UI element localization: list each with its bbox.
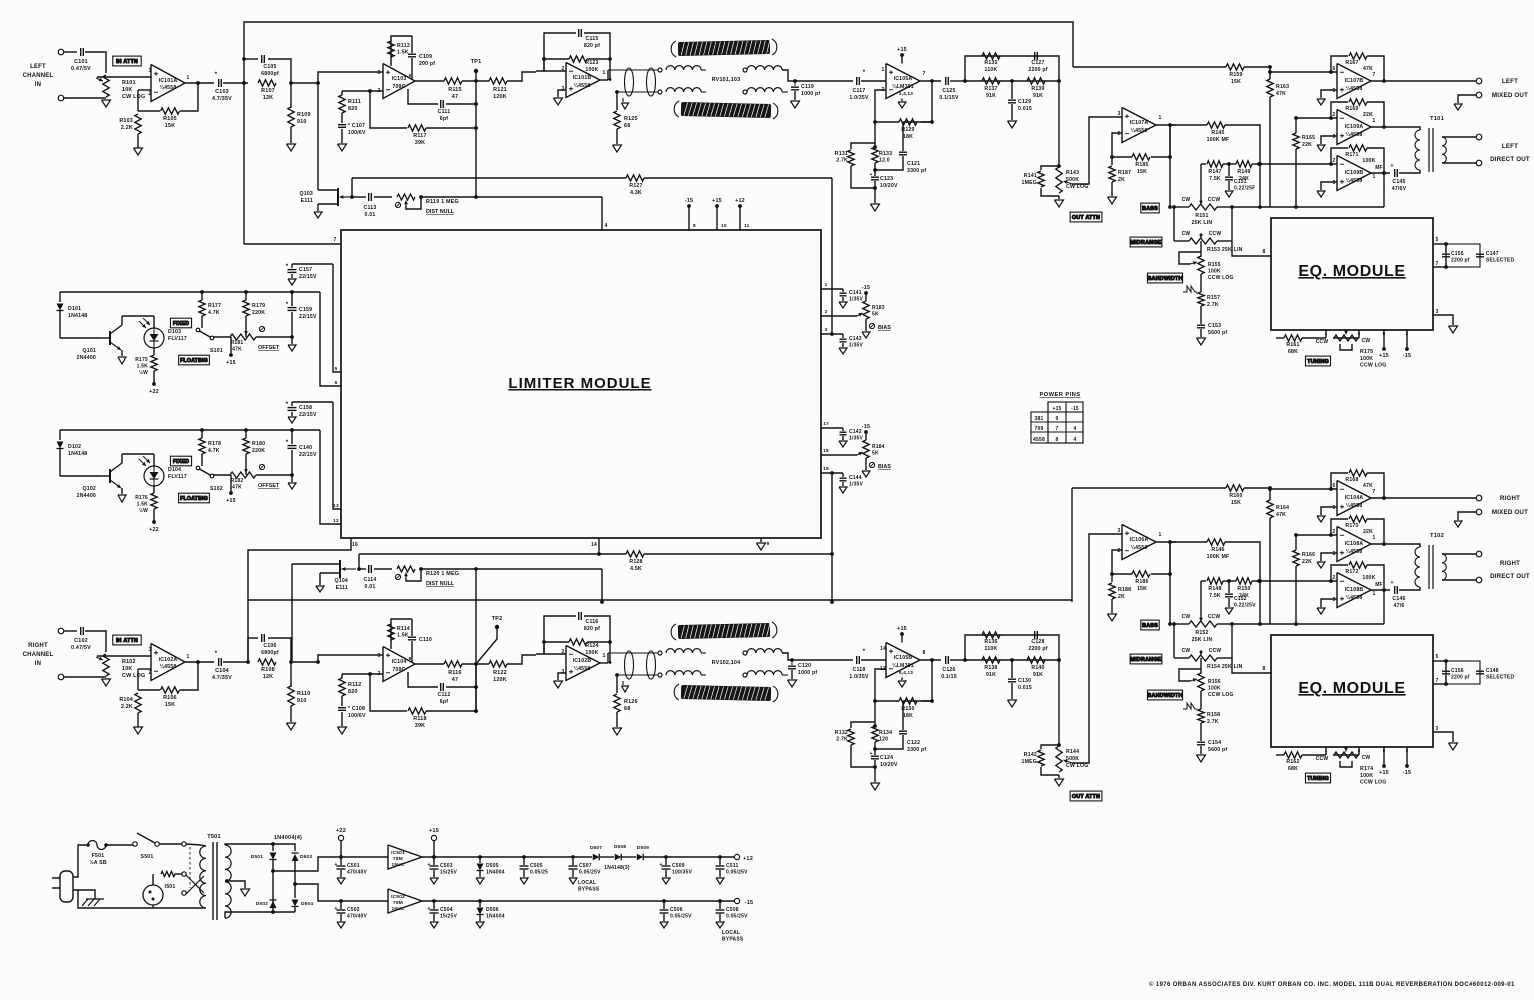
svg-text:7: 7 xyxy=(1436,678,1439,684)
svg-text:½W: ½W xyxy=(139,507,148,514)
sawtooth symbol xyxy=(1183,286,1197,292)
resistor R185 15K feedback xyxy=(1112,133,1122,157)
resistor R114 1.5K compensation xyxy=(391,619,412,648)
svg-text:S501: S501 xyxy=(141,854,154,860)
limiter top power pins xyxy=(687,204,691,208)
label TUNING xyxy=(1305,356,1330,366)
svg-text:1N4148: 1N4148 xyxy=(68,313,87,319)
svg-text:FIXED: FIXED xyxy=(173,321,189,327)
svg-text:½W: ½W xyxy=(139,369,148,376)
svg-text:7: 7 xyxy=(1373,489,1376,495)
svg-text:R172: R172 xyxy=(1345,569,1358,575)
svg-text:22K: 22K xyxy=(1302,559,1312,565)
svg-text:2: 2 xyxy=(1406,748,1409,753)
svg-text:120K: 120K xyxy=(493,677,507,683)
resistor R180 220K xyxy=(244,428,248,432)
test point TP2 xyxy=(495,625,499,629)
Left channel input label xyxy=(23,64,54,88)
svg-text:IC102A: IC102A xyxy=(159,657,178,663)
ground xyxy=(569,878,577,884)
svg-text:¼4558: ¼4558 xyxy=(1131,127,1148,134)
svg-text:12K: 12K xyxy=(263,674,274,680)
svg-text:10: 10 xyxy=(721,223,727,229)
limiter pin wire 19 xyxy=(821,472,843,474)
resistor R139 91K xyxy=(1027,78,1045,84)
svg-text:D103: D103 xyxy=(168,329,181,335)
svg-text:8: 8 xyxy=(409,73,412,78)
svg-text:17: 17 xyxy=(823,421,829,427)
svg-text:1.5K: 1.5K xyxy=(397,50,409,56)
svg-text:*: * xyxy=(215,651,218,657)
svg-text:2: 2 xyxy=(1333,575,1336,581)
svg-text:R178: R178 xyxy=(208,441,221,447)
capacitor C111 6pf feedback xyxy=(408,89,438,104)
resistor R117 39K feedback xyxy=(370,91,407,128)
svg-text:6: 6 xyxy=(1333,483,1336,489)
svg-text:R149: R149 xyxy=(1237,169,1250,175)
resistor R108 12K xyxy=(258,659,276,665)
svg-text:C502: C502 xyxy=(347,907,360,913)
resistor R164 47K xyxy=(1267,500,1273,518)
main bus wire xyxy=(60,291,320,293)
capacitor C103 4.7/35V xyxy=(218,79,220,87)
svg-text:3: 3 xyxy=(149,647,152,653)
svg-text:FLV117: FLV117 xyxy=(168,336,187,342)
svg-text:¼4558: ¼4558 xyxy=(1346,177,1363,184)
resistor R140 91K xyxy=(1027,657,1045,663)
svg-text:3: 3 xyxy=(149,68,152,74)
wire to 709 stage xyxy=(291,82,318,84)
resistor R131 2.7K xyxy=(851,143,875,149)
capacitor C146 xyxy=(1371,589,1390,591)
svg-text:-15: -15 xyxy=(685,198,693,204)
svg-text:14: 14 xyxy=(880,646,886,652)
svg-text:F501: F501 xyxy=(92,853,105,859)
svg-text:C116: C116 xyxy=(586,619,599,625)
wire xyxy=(64,51,77,53)
svg-text:47: 47 xyxy=(452,677,458,683)
svg-text:C143: C143 xyxy=(849,336,862,342)
svg-text:C129: C129 xyxy=(1018,99,1031,105)
AC plug xyxy=(52,878,60,888)
svg-text:78M: 78M xyxy=(393,856,403,862)
svg-text:C140: C140 xyxy=(299,445,312,451)
wire LM381 output xyxy=(920,80,941,82)
resistor R166 22K xyxy=(1295,535,1297,550)
svg-text:DIST NULL: DIST NULL xyxy=(426,209,455,215)
resistor R162 68K tuning xyxy=(1276,754,1284,756)
svg-text:EQ. MODULE: EQ. MODULE xyxy=(1298,263,1405,280)
wire TP column down xyxy=(475,569,477,711)
svg-text:R102: R102 xyxy=(122,659,136,665)
wire lower rail xyxy=(78,890,201,908)
capacitor C152 xyxy=(1228,581,1230,593)
svg-text:C505: C505 xyxy=(530,863,543,869)
svg-text:6: 6 xyxy=(335,380,338,386)
svg-text:CW: CW xyxy=(1182,231,1191,237)
svg-text:BYPASS: BYPASS xyxy=(722,936,744,942)
capacitor C157 22/15V xyxy=(292,263,333,265)
svg-text:47K: 47K xyxy=(232,484,242,490)
svg-text:8: 8 xyxy=(1263,666,1266,672)
capacitor C125 0.1/15V xyxy=(945,77,947,85)
svg-text:¼4558: ¼4558 xyxy=(574,82,591,89)
pot R119 1 MEG DIST NULL xyxy=(397,194,415,200)
ground xyxy=(1108,197,1117,204)
label BANDWIDTH xyxy=(1147,273,1182,283)
resistor R121 120K xyxy=(489,78,507,84)
svg-text:D104: D104 xyxy=(168,467,181,473)
svg-text:EQ. MODULE: EQ. MODULE xyxy=(1298,680,1405,697)
svg-text:381: 381 xyxy=(1035,416,1044,422)
resistor R105 15K feedback xyxy=(138,110,160,112)
+15 pin xyxy=(1383,330,1385,349)
svg-text:CW: CW xyxy=(1362,755,1371,761)
svg-text:IN ATTN: IN ATTN xyxy=(116,638,138,644)
ground + input xyxy=(1321,599,1337,607)
svg-text:C507: C507 xyxy=(579,863,592,869)
svg-text:2N4400: 2N4400 xyxy=(77,493,96,499)
svg-text:D101: D101 xyxy=(68,306,81,312)
svg-text:MIDRANGE: MIDRANGE xyxy=(1131,240,1162,246)
wires pot frame xyxy=(1173,207,1175,241)
svg-text:+: + xyxy=(427,906,430,912)
capacitor C141 1/35V xyxy=(842,289,844,292)
wire R47 to bass wiper xyxy=(1200,581,1202,618)
svg-text:3: 3 xyxy=(1333,134,1336,140)
svg-text:C153: C153 xyxy=(1208,323,1221,329)
svg-text:R143: R143 xyxy=(1066,170,1079,176)
svg-text:D501: D501 xyxy=(251,854,263,860)
label IN ATTN xyxy=(113,56,141,66)
svg-text:LOCAL: LOCAL xyxy=(722,930,740,936)
svg-text:CW: CW xyxy=(1362,338,1371,344)
svg-text:R180: R180 xyxy=(252,441,265,447)
ground xyxy=(662,878,670,884)
op-amp IC104A mixed out xyxy=(1337,481,1371,516)
svg-text:1: 1 xyxy=(1373,174,1376,180)
svg-text:¼4558: ¼4558 xyxy=(1346,594,1363,601)
svg-text:47/6: 47/6 xyxy=(1394,603,1405,609)
svg-text:100K MF: 100K MF xyxy=(1207,137,1230,143)
svg-text:IN ATTN: IN ATTN xyxy=(116,59,138,65)
wire op2 output to transformer xyxy=(1371,544,1420,547)
svg-text:0.22/25F: 0.22/25F xyxy=(1234,185,1255,191)
svg-text:R181: R181 xyxy=(231,340,244,346)
svg-text:8: 8 xyxy=(923,650,926,656)
svg-text:68: 68 xyxy=(624,123,630,129)
-15 pin xyxy=(1406,747,1408,766)
svg-text:1: 1 xyxy=(187,654,190,660)
svg-text:R137: R137 xyxy=(984,86,997,92)
center tap ground xyxy=(225,881,245,888)
svg-text:+: + xyxy=(1390,163,1393,169)
capacitor C509 100/35V xyxy=(665,857,667,865)
pot R181 47K OFFSET xyxy=(213,336,231,338)
svg-text:709: 709 xyxy=(1035,426,1044,432)
svg-text:R123: R123 xyxy=(585,60,598,66)
svg-text:R174: R174 xyxy=(1360,766,1373,772)
limiter pin wire 1 xyxy=(821,288,843,290)
svg-text:0.01: 0.01 xyxy=(365,212,376,218)
+22 terminal xyxy=(338,835,343,840)
wire wiper to op-amp xyxy=(97,655,151,657)
ground LM381 xyxy=(901,99,903,102)
svg-text:100K: 100K xyxy=(1208,686,1221,692)
svg-text:R148: R148 xyxy=(1208,586,1221,592)
svg-text:CCW: CCW xyxy=(1316,339,1329,345)
pot R153 25K LIN MIDRANGE xyxy=(1189,238,1217,244)
svg-text:2: 2 xyxy=(1333,158,1336,164)
svg-text:C122: C122 xyxy=(907,740,920,746)
limiter pin wire 17 xyxy=(821,427,843,429)
wire to +12 xyxy=(666,856,734,858)
svg-text:TP1: TP1 xyxy=(471,59,482,65)
wire right bottom bus xyxy=(248,600,1072,662)
svg-text:3: 3 xyxy=(1118,528,1121,534)
resistor R188 2K xyxy=(1111,574,1113,582)
svg-text:4: 4 xyxy=(1074,437,1077,443)
svg-text:110K: 110K xyxy=(985,646,998,652)
diode D501 xyxy=(272,844,274,851)
svg-text:IC102B: IC102B xyxy=(573,658,592,664)
svg-text:R188: R188 xyxy=(1118,587,1131,593)
ground + input xyxy=(1321,90,1337,98)
svg-text:2200 pf: 2200 pf xyxy=(1451,675,1470,681)
svg-text:3: 3 xyxy=(378,70,381,76)
svg-text:47K: 47K xyxy=(1276,512,1286,518)
svg-text:C114: C114 xyxy=(364,577,377,583)
capacitor C156 2200pf xyxy=(1445,661,1447,670)
capacitor C154 5600pf xyxy=(1200,737,1202,741)
drive coil bottom xyxy=(666,671,701,675)
svg-text:C158: C158 xyxy=(299,405,312,411)
limiter bottom ground xyxy=(760,538,762,542)
svg-text:5600 pf: 5600 pf xyxy=(1208,747,1227,753)
svg-text:R128: R128 xyxy=(629,559,642,565)
svg-text:TP2: TP2 xyxy=(492,616,503,622)
limiter module box xyxy=(341,230,821,538)
label FLOATING xyxy=(179,355,210,365)
svg-text:C142: C142 xyxy=(849,429,862,435)
svg-text:22K: 22K xyxy=(1302,142,1312,148)
svg-text:+: + xyxy=(869,172,872,178)
svg-text:R159: R159 xyxy=(1229,72,1242,78)
svg-text:-15: -15 xyxy=(862,285,870,291)
svg-text:100K: 100K xyxy=(1362,575,1375,581)
svg-text:R184: R184 xyxy=(872,444,885,450)
svg-text:IC104A: IC104A xyxy=(1345,495,1364,501)
ground xyxy=(660,922,668,928)
svg-text:CW: CW xyxy=(1182,197,1191,203)
capacitor C159 22/15V xyxy=(291,292,293,306)
svg-text:R179: R179 xyxy=(252,303,265,309)
svg-text:R165: R165 xyxy=(1302,135,1315,141)
pot R143 500K CW LOG xyxy=(1056,167,1062,193)
svg-text:68K: 68K xyxy=(1288,349,1298,355)
svg-text:R182: R182 xyxy=(231,478,244,484)
svg-text:C119: C119 xyxy=(801,84,814,90)
svg-text:7.5K: 7.5K xyxy=(1209,593,1221,599)
transformer T101 xyxy=(1430,116,1445,122)
svg-text:R147: R147 xyxy=(1208,169,1221,175)
+15 pin xyxy=(1383,747,1385,766)
svg-text:910: 910 xyxy=(297,119,307,125)
svg-text:BASS: BASS xyxy=(1142,623,1158,629)
svg-text:MIDRANGE: MIDRANGE xyxy=(1131,657,1162,663)
ground + input xyxy=(1321,182,1337,190)
+15 terminal xyxy=(431,835,436,840)
svg-text:¼4558: ¼4558 xyxy=(574,665,591,672)
transformer T501 secondary xyxy=(225,845,231,918)
svg-text:R126: R126 xyxy=(624,699,638,705)
svg-text:25K LIN: 25K LIN xyxy=(1192,220,1213,226)
svg-text:0.05/25: 0.05/25 xyxy=(530,869,548,875)
svg-text:LOCAL: LOCAL xyxy=(578,880,596,886)
wire left top bus xyxy=(244,22,1073,244)
switch S101 xyxy=(196,328,200,332)
svg-text:47/6V: 47/6V xyxy=(1392,186,1407,192)
pickup coil bottom xyxy=(747,88,782,92)
capacitor C110 xyxy=(411,619,413,636)
svg-text:6: 6 xyxy=(1333,66,1336,72)
svg-text:100/6V: 100/6V xyxy=(348,713,366,719)
resistor R150 18K feedback xyxy=(875,669,886,701)
svg-text:2: 2 xyxy=(1118,131,1121,137)
ground xyxy=(337,922,345,928)
svg-text:R168: R168 xyxy=(1345,477,1358,483)
capacitor C140 22/15V xyxy=(291,430,293,444)
svg-text:*: * xyxy=(286,440,289,446)
op-amp IC108A direct out upper xyxy=(1337,527,1371,562)
svg-text:DIST NULL: DIST NULL xyxy=(426,581,455,587)
ground xyxy=(287,144,296,151)
svg-text:7: 7 xyxy=(1056,426,1059,432)
wires into transducer xyxy=(608,69,659,71)
wire wiper to op-amp xyxy=(97,76,151,78)
label BANDWIDTH xyxy=(1147,690,1182,700)
svg-text:1: 1 xyxy=(603,70,606,76)
transformer T501 core xyxy=(212,842,214,920)
ground xyxy=(476,878,484,884)
svg-text:+: + xyxy=(869,751,872,757)
svg-text:C111: C111 xyxy=(438,109,451,115)
svg-text:CW LOG: CW LOG xyxy=(122,673,145,679)
svg-text:SELECTED: SELECTED xyxy=(1486,258,1514,264)
svg-text:RIGHT: RIGHT xyxy=(1500,560,1520,567)
svg-text:R161: R161 xyxy=(1286,342,1299,348)
diode D506 1N4004 xyxy=(479,901,481,907)
svg-text:C148: C148 xyxy=(1486,668,1499,674)
svg-text:R153 25K LIN: R153 25K LIN xyxy=(1207,247,1243,253)
svg-text:C509: C509 xyxy=(672,863,685,869)
svg-text:3: 3 xyxy=(378,653,381,659)
svg-text:LEFT: LEFT xyxy=(1502,78,1518,85)
svg-text:R151: R151 xyxy=(1195,213,1208,219)
capacitor C504 15/25V xyxy=(433,901,435,909)
capacitor C144 1/35V xyxy=(842,473,844,477)
svg-text:½A SB: ½A SB xyxy=(89,859,107,866)
LED D104 FLV117 xyxy=(144,466,164,486)
-15 pin xyxy=(1406,330,1408,349)
svg-text:R186: R186 xyxy=(1135,579,1148,585)
ground xyxy=(338,144,347,151)
svg-text:-15: -15 xyxy=(1403,353,1411,359)
op-amp IC106A EQ driver xyxy=(1122,525,1156,560)
svg-text:IC106A: IC106A xyxy=(1130,537,1149,543)
op-amp IC103 709C xyxy=(383,64,415,99)
svg-text:4.5K: 4.5K xyxy=(630,566,642,572)
resistor R124 100K feedback xyxy=(544,641,569,643)
capacitor C505 0.05/25 xyxy=(523,857,525,865)
ground xyxy=(788,680,797,687)
svg-text:D506: D506 xyxy=(486,907,499,913)
svg-text:1: 1 xyxy=(603,653,606,659)
svg-text:7.5K: 7.5K xyxy=(1209,176,1221,182)
svg-text:+15: +15 xyxy=(1379,770,1389,776)
jack Left direct out xyxy=(1442,136,1476,138)
drive coil top xyxy=(666,649,701,653)
wires into limiter pins xyxy=(333,264,341,372)
svg-text:1.0/35V: 1.0/35V xyxy=(849,674,869,680)
svg-text:0.05/25V: 0.05/25V xyxy=(670,913,692,919)
svg-text:T101: T101 xyxy=(1430,116,1445,122)
svg-text:25K LIN: 25K LIN xyxy=(1192,637,1213,643)
svg-text:0.05/25V: 0.05/25V xyxy=(579,869,601,875)
capacitor C109 xyxy=(411,36,413,53)
svg-text:2: 2 xyxy=(149,670,152,676)
svg-text:IC107A: IC107A xyxy=(1130,120,1149,126)
svg-text:C508: C508 xyxy=(726,907,739,913)
resistor R133 12.0 xyxy=(874,122,876,147)
svg-text:+22: +22 xyxy=(149,389,159,395)
input jack top Left xyxy=(58,49,64,55)
capacitor C501 470/40V xyxy=(340,857,342,865)
capacitor C147 SELECTED xyxy=(1476,253,1484,255)
svg-text:3: 3 xyxy=(562,669,565,675)
svg-text:SELECTED: SELECTED xyxy=(1486,675,1514,681)
wire xyxy=(64,97,106,99)
capacitor C114 0.01 xyxy=(359,568,366,570)
svg-text:OUT ATTN: OUT ATTN xyxy=(1072,794,1100,800)
svg-text:IC109A: IC109A xyxy=(1345,124,1364,130)
svg-text:E111: E111 xyxy=(301,198,313,204)
svg-text:MF: MF xyxy=(1375,582,1383,588)
svg-text:-15: -15 xyxy=(1403,770,1411,776)
wire to spring driver xyxy=(507,72,536,81)
ground xyxy=(288,279,296,285)
+15 supply to LM381 xyxy=(900,632,904,636)
wires into limiter pins xyxy=(333,402,341,509)
svg-text:+15: +15 xyxy=(226,498,236,504)
jack Left mixed out xyxy=(1476,78,1482,84)
resistor R169 22K feedback xyxy=(1331,102,1348,118)
wire to spring driver xyxy=(507,655,536,664)
svg-text:*: * xyxy=(863,649,866,655)
svg-text:CW LOG: CW LOG xyxy=(1066,184,1089,190)
svg-text:T501: T501 xyxy=(207,834,221,840)
svg-text:3: 3 xyxy=(1436,309,1439,315)
svg-text:0.47/5V: 0.47/5V xyxy=(71,645,91,651)
spring RV102,104 upper xyxy=(671,622,777,640)
drive coil top xyxy=(666,66,701,70)
svg-text:¼4558: ¼4558 xyxy=(1131,544,1148,551)
svg-text:C118: C118 xyxy=(853,667,866,673)
resistor R170 22K feedback xyxy=(1331,519,1348,535)
svg-text:10/20V: 10/20V xyxy=(880,183,898,189)
svg-text:E111: E111 xyxy=(336,585,348,591)
svg-text:CW LOG: CW LOG xyxy=(1066,763,1089,769)
